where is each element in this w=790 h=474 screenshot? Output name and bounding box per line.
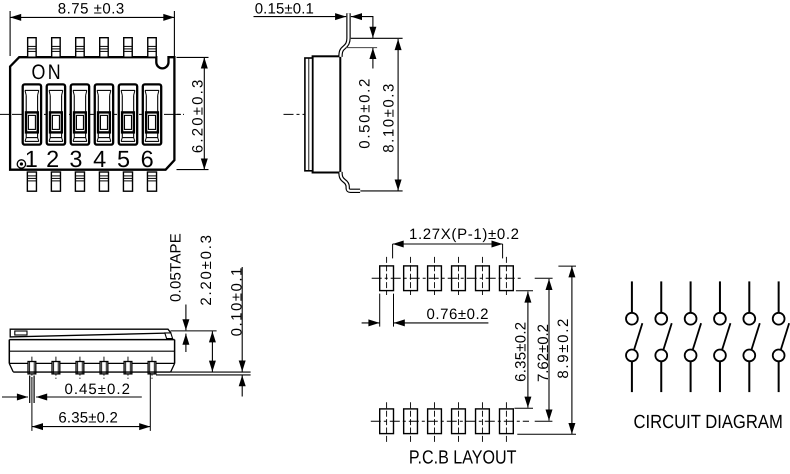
- svg-text:8.10±0.3: 8.10±0.3: [381, 84, 398, 153]
- svg-text:8.75 ±0.3: 8.75 ±0.3: [58, 1, 125, 18]
- svg-text:0.15±0.1: 0.15±0.1: [255, 1, 314, 18]
- svg-text:CIRCUIT DIAGRAM: CIRCUIT DIAGRAM: [634, 412, 783, 433]
- svg-text:ON: ON: [32, 61, 64, 84]
- svg-text:0.05TAPE: 0.05TAPE: [168, 233, 185, 302]
- svg-text:3: 3: [69, 146, 82, 172]
- svg-text:0.45±0.2: 0.45±0.2: [64, 381, 130, 398]
- svg-text:6: 6: [141, 146, 154, 172]
- svg-text:P.C.B LAYOUT: P.C.B LAYOUT: [409, 448, 517, 469]
- svg-text:1.27X(P-1)±0.2: 1.27X(P-1)±0.2: [409, 226, 519, 243]
- svg-text:0.10±0.1: 0.10±0.1: [229, 268, 246, 337]
- svg-text:7.62±0.2: 7.62±0.2: [535, 324, 552, 382]
- svg-text:6.35±0.2: 6.35±0.2: [58, 410, 118, 427]
- svg-text:0.76±0.2: 0.76±0.2: [427, 306, 489, 323]
- svg-text:0.50±0.2: 0.50±0.2: [357, 79, 374, 149]
- svg-text:2: 2: [46, 146, 59, 172]
- svg-text:6.35±0.2: 6.35±0.2: [513, 322, 530, 382]
- svg-text:5: 5: [117, 146, 130, 172]
- svg-text:4: 4: [93, 146, 106, 172]
- svg-text:1: 1: [25, 146, 38, 172]
- svg-text:2.20±0.3: 2.20±0.3: [198, 235, 215, 306]
